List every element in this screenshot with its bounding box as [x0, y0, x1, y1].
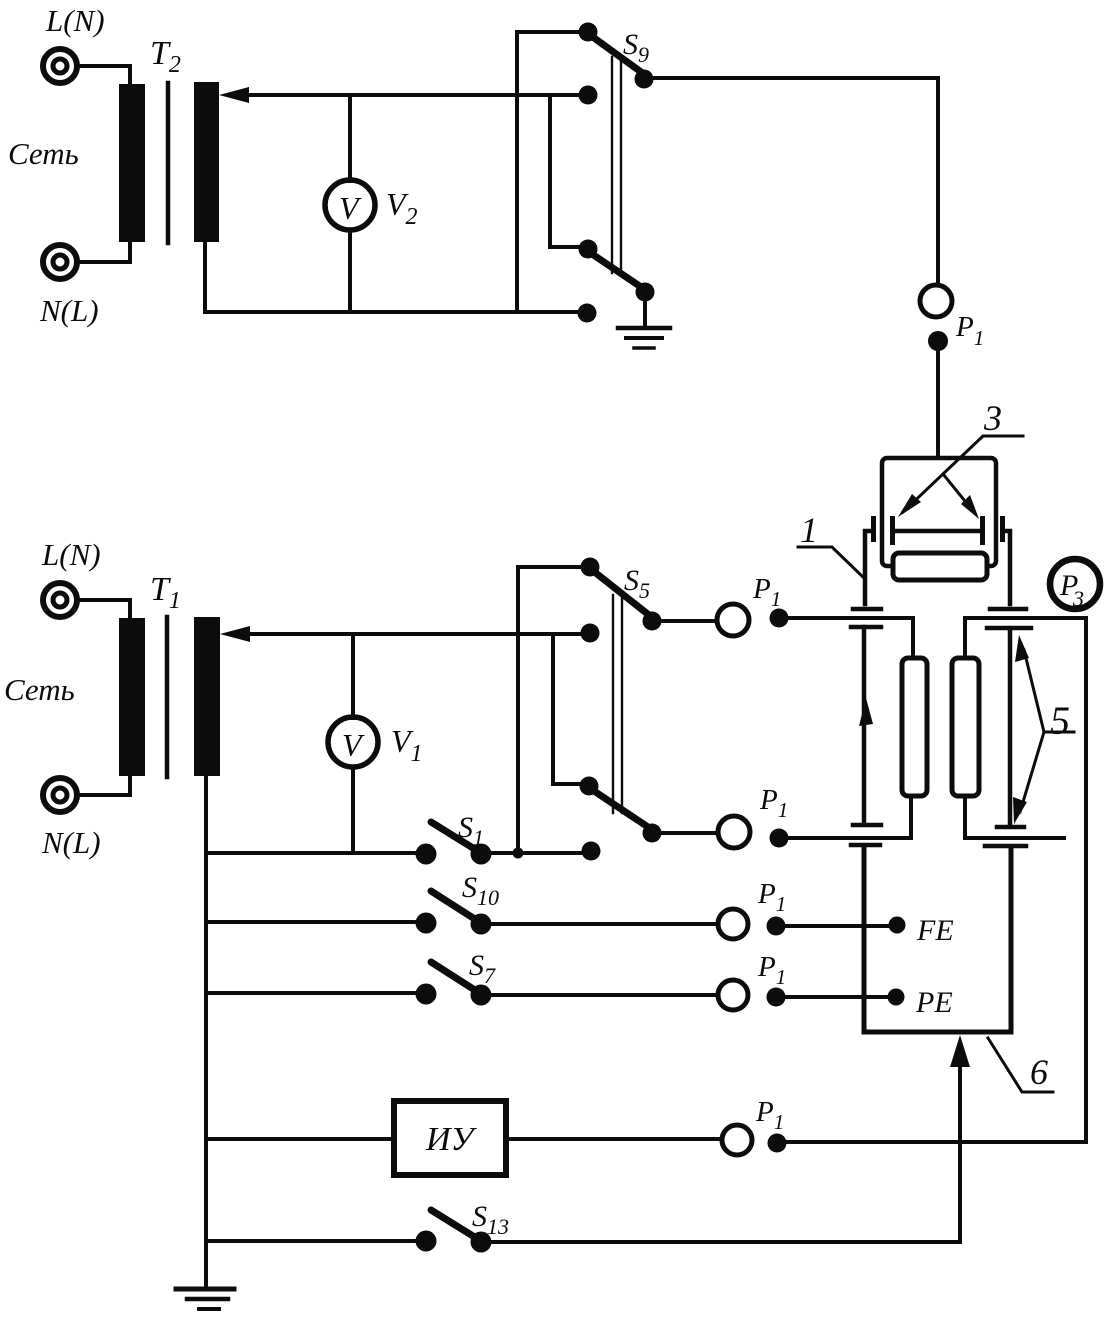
svg-text:N(L): N(L): [41, 825, 101, 860]
svg-text:3: 3: [1072, 586, 1084, 611]
switch S9 contact dots: [579, 23, 598, 42]
connector P3 designator circle: [1050, 559, 1100, 609]
lamp housing box: [882, 458, 996, 566]
wire T2 secondary bottom bus: [205, 242, 585, 312]
wire IU to connector P1: [506, 1137, 722, 1141]
transformer T1 secondary winding: [194, 617, 220, 776]
connector P1 circle PE row: [718, 980, 748, 1010]
lamp filament line: [893, 529, 980, 534]
ballast element left: [902, 658, 927, 796]
ground bottom left: [176, 1287, 234, 1292]
wire S9 tap riser to lower pole contact: [550, 95, 580, 247]
switch S9 upper blade: [590, 35, 648, 77]
connector P1 circle second row: [718, 816, 750, 848]
voltmeter V2 stem top: [348, 95, 352, 181]
wire S10 to connector P1: [490, 922, 717, 926]
voltmeter V2: [325, 180, 375, 230]
svg-text:L(N): L(N): [41, 537, 101, 572]
wire S7 to connector P1: [490, 993, 717, 997]
voltmeter V2 stem bottom: [348, 230, 352, 312]
wire P1 tap to left lampholder lead: [788, 618, 913, 658]
terminal PE dot: [888, 989, 905, 1006]
svg-text:Сеть: Сеть: [8, 136, 79, 171]
wire S13 row: [206, 1239, 418, 1243]
wire bus to IU box: [206, 1137, 393, 1141]
svg-text:3: 3: [983, 398, 1002, 438]
wire P1 down to lamp housing: [936, 349, 940, 458]
wire S5 top contact riser to S1 row: [518, 567, 582, 851]
wire S1 to S5 bottom contact: [490, 851, 582, 855]
svg-text:1: 1: [800, 510, 818, 550]
wire terminal to T1 primary bottom: [78, 776, 130, 795]
wire P1 to PE terminal: [777, 995, 896, 999]
switch S5 coupling link: [613, 595, 622, 813]
connector contact plates right upper pair: [987, 609, 1031, 628]
terminal XS4 N(L) bottom: [43, 778, 77, 812]
voltmeter V1: [328, 717, 378, 767]
wire P1 to FE terminal: [777, 924, 897, 928]
svg-text:N(L): N(L): [39, 293, 99, 328]
wire S5 tap riser to lower pole contact: [553, 634, 586, 784]
wire T2 tap arrow to S9 contact: [243, 93, 585, 97]
node dot P1 FE row: [767, 917, 786, 936]
wire right ballast bottom to free lead: [965, 796, 1064, 838]
ground under S9: [643, 300, 647, 326]
voltmeter V1 stem bottom: [351, 767, 355, 853]
right bus down to IU line: [1084, 618, 1088, 1142]
svg-text:FE: FE: [916, 914, 954, 947]
node dot P1 second row: [770, 829, 789, 848]
wire S5 upper output to connector P1: [661, 619, 717, 623]
svg-text:ИУ: ИУ: [425, 1121, 478, 1158]
switch S5 lower blade: [591, 789, 654, 831]
wire S9 top contact to bottom bus riser: [517, 32, 581, 312]
terminal XS3 L(N) bottom: [43, 583, 77, 617]
svg-text:PE: PE: [915, 986, 953, 1019]
wire S7 row: [206, 991, 418, 995]
wire P1 IU row to right bus: [786, 1140, 1086, 1144]
wire left holder elbow down: [865, 531, 871, 604]
connector P1 circle upper row: [717, 604, 749, 636]
measuring unit IU box: [394, 1101, 506, 1175]
svg-text:Сеть: Сеть: [4, 672, 75, 707]
transformer T1 primary winding: [119, 618, 145, 776]
transformer T2 primary winding: [119, 84, 145, 242]
wire S5 lower output to connector P1: [661, 831, 718, 835]
wire T1 tap arrow to S5 contact: [243, 632, 590, 636]
node dot P1 upper row: [770, 609, 789, 628]
svg-text:L(N): L(N): [45, 3, 105, 38]
junction dot S1/S5 riser: [513, 848, 524, 859]
ballast element right: [952, 658, 979, 796]
wire terminal to T2 primary bottom: [78, 241, 130, 262]
lamp pin bars item 3: [890, 516, 895, 545]
connector contact plates left lower pair: [851, 825, 881, 845]
terminal XS1 L(N) top: [43, 49, 77, 83]
transformer T2 secondary winding: [194, 82, 219, 242]
wire right lampholder lead to right bus: [965, 618, 1086, 658]
wire S9 blade output to connector P1: [653, 78, 938, 285]
wire right holder middle vertical: [1008, 629, 1013, 824]
connector contact plates right lower pair: [985, 827, 1026, 846]
wire S13 to arrow riser: [490, 1240, 960, 1244]
voltmeter V1 stem top: [351, 634, 355, 718]
wire left holder middle vertical: [862, 627, 867, 822]
node dot P1 IU row: [768, 1134, 787, 1153]
switch S5 contact dots: [581, 558, 600, 577]
holder contact bars: [871, 516, 876, 542]
wire right holder elbow down: [1005, 531, 1010, 604]
transformer T2 core: [166, 83, 171, 243]
svg-text:5: 5: [1050, 698, 1070, 743]
connector P1 top circle: [920, 285, 952, 317]
wire P1 tap to left ballast bottom: [788, 796, 911, 838]
node dot P1 PE row: [767, 988, 786, 1007]
switch S5 upper blade: [592, 570, 654, 619]
switch S9 lower blade: [589, 252, 647, 291]
terminal XS2 N(L) top: [43, 245, 77, 279]
wire S1 row: [206, 851, 418, 855]
wire terminal to T2 primary top: [78, 66, 130, 85]
svg-text:6: 6: [1030, 1052, 1048, 1092]
arrow from S13 into box 6: [958, 1062, 962, 1242]
connector contact plates left upper pair: [851, 609, 881, 627]
luminaire body box 6: [864, 847, 1011, 1032]
terminal FE dot: [889, 917, 906, 934]
wire terminal to T1 primary top: [78, 600, 130, 619]
left bus from T1 secondary to ground: [204, 776, 208, 1288]
lamp tube: [893, 553, 987, 580]
wire S10 row: [206, 920, 418, 924]
transformer T1 core: [165, 617, 170, 777]
switch S9 coupling link: [612, 57, 621, 273]
connector P1 circle IU row: [722, 1125, 752, 1155]
connector P1 circle FE row: [718, 909, 748, 939]
node dot under P1: [928, 331, 948, 351]
